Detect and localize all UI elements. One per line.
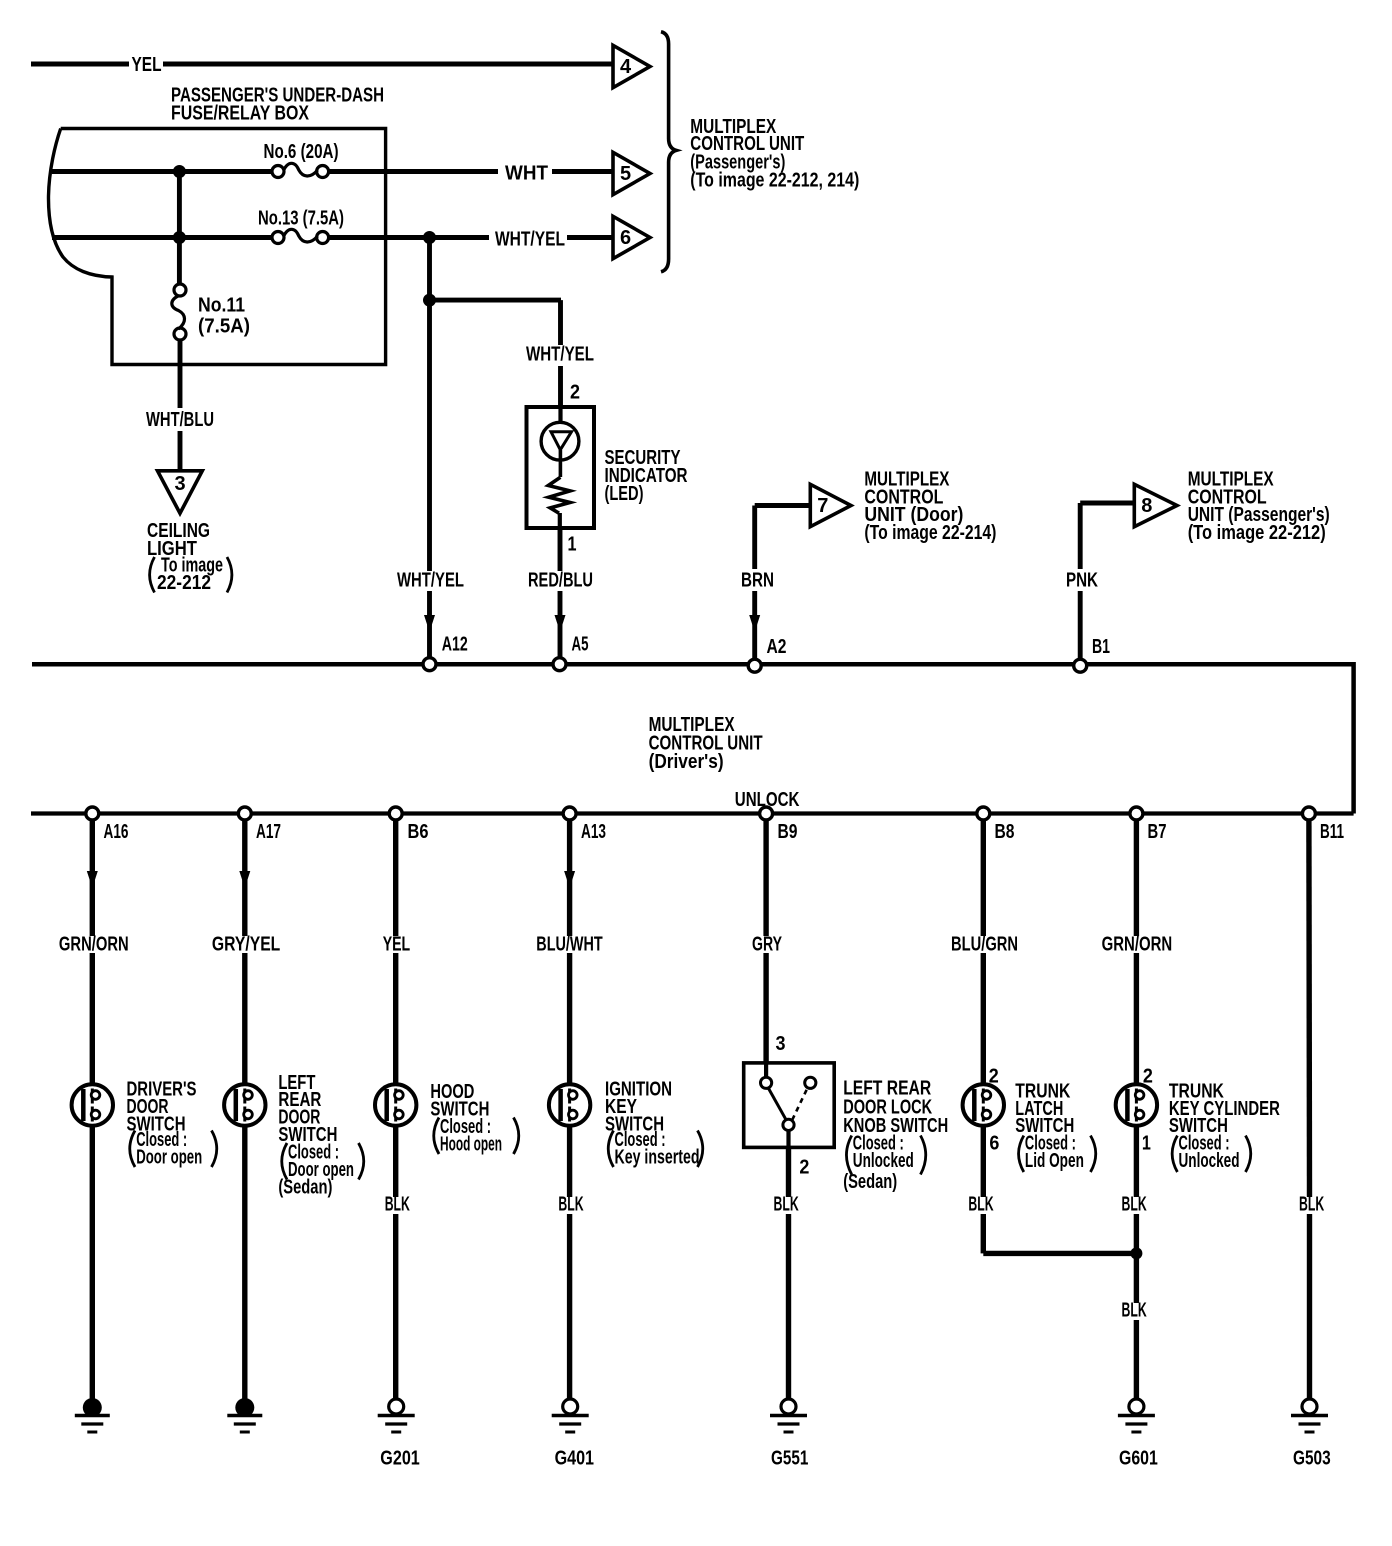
connector triangle 3 to ceiling light bbox=[158, 471, 203, 514]
svg-text:2: 2 bbox=[570, 382, 580, 404]
wire label YEL bbox=[132, 54, 162, 76]
terminal label A2 bbox=[767, 636, 787, 658]
svg-text:GRY: GRY bbox=[752, 934, 782, 956]
multiplex control unit driver's outline bbox=[31, 664, 1354, 813]
svg-text:A16: A16 bbox=[104, 821, 129, 843]
ground label G551 bbox=[771, 1448, 808, 1470]
svg-text:GRY/YEL: GRY/YEL bbox=[212, 934, 280, 956]
wire GRN/ORN from A16 bbox=[90, 820, 95, 1085]
svg-text:No.6 (20A): No.6 (20A) bbox=[264, 141, 339, 163]
ground G551 bbox=[770, 1399, 807, 1432]
svg-text:BLK: BLK bbox=[558, 1194, 584, 1216]
svg-text:B1: B1 bbox=[1092, 636, 1110, 658]
svg-text:(7.5A): (7.5A) bbox=[198, 316, 250, 338]
svg-text:3: 3 bbox=[776, 1033, 786, 1055]
label LEFT REAR DOOR LOCK KNOB SWITCH bbox=[843, 1078, 948, 1193]
wire WHT/BLU to ceiling light bbox=[178, 340, 183, 470]
pin 2 trunk key cylinder switch bbox=[1143, 1066, 1153, 1088]
junction node B8/B7 bbox=[1130, 1247, 1142, 1259]
terminal A17 bbox=[238, 807, 251, 820]
terminal label A16 bbox=[104, 821, 129, 843]
pin 1 trunk key cylinder switch bbox=[1142, 1133, 1151, 1155]
wire RED/BLU to A5 bbox=[558, 528, 563, 658]
wire label WHT/YEL (A12) bbox=[397, 570, 464, 592]
svg-text:G401: G401 bbox=[555, 1448, 594, 1470]
wire label WHT/YEL bbox=[495, 229, 565, 251]
wire fuse row No.13 bbox=[52, 235, 613, 240]
svg-text:6: 6 bbox=[620, 227, 631, 249]
svg-text:WHT/YEL: WHT/YEL bbox=[495, 229, 565, 251]
wire label PNK bbox=[1066, 570, 1098, 592]
wire label BLK (B7 lower) bbox=[1122, 1300, 1148, 1322]
arrowhead on A16 wire bbox=[87, 871, 98, 888]
pin 2 security indicator bbox=[570, 382, 580, 404]
driver's door switch bbox=[72, 1084, 113, 1125]
svg-text:5: 5 bbox=[620, 163, 631, 185]
junction node security branch bbox=[423, 294, 436, 307]
terminal label B8 bbox=[995, 821, 1015, 843]
svg-text:8: 8 bbox=[1141, 495, 1152, 517]
svg-text:B11: B11 bbox=[1320, 821, 1344, 843]
svg-text:1: 1 bbox=[1142, 1133, 1151, 1155]
wire GRY/YEL from A17 bbox=[242, 820, 247, 1085]
svg-text:4: 4 bbox=[620, 56, 632, 78]
wire YEL to connector arrow 4 bbox=[31, 62, 613, 67]
svg-text:BLK: BLK bbox=[1122, 1300, 1148, 1322]
terminal A16 bbox=[86, 807, 99, 820]
svg-text:A17: A17 bbox=[256, 821, 281, 843]
ground label G401 bbox=[555, 1448, 594, 1470]
svg-text:WHT/YEL: WHT/YEL bbox=[526, 344, 594, 366]
wire label BLK (B11) bbox=[1299, 1194, 1325, 1216]
wire A13 switch to ground bbox=[567, 1126, 572, 1400]
svg-text:Hood open: Hood open bbox=[440, 1134, 502, 1156]
wire label BLK (A13) bbox=[558, 1194, 584, 1216]
label HOOD SWITCH bbox=[430, 1081, 518, 1156]
label TRUNK LATCH SWITCH bbox=[1015, 1080, 1095, 1172]
wire B8 switch to junction bbox=[983, 1126, 1136, 1254]
brace multiplex control unit passenger's bbox=[661, 32, 676, 272]
wire fuse row No.6 bbox=[52, 169, 613, 174]
fuse label No.11 (7.5A) bbox=[198, 295, 250, 338]
svg-text:WHT: WHT bbox=[505, 163, 548, 185]
svg-text:A13: A13 bbox=[581, 821, 606, 843]
label DRIVER'S DOOR SWITCH bbox=[127, 1078, 217, 1168]
ground label G201 bbox=[380, 1448, 420, 1470]
wire B6 switch to ground bbox=[393, 1126, 398, 1400]
label MULTIPLEX CONTROL UNIT (Passenger's) right bbox=[1188, 469, 1330, 544]
svg-text:6: 6 bbox=[989, 1133, 999, 1155]
wire BLU/GRN from B8 bbox=[981, 820, 986, 1085]
svg-text:A2: A2 bbox=[767, 636, 787, 658]
terminal label B1 bbox=[1092, 636, 1110, 658]
wire YEL from B6 bbox=[393, 820, 398, 1085]
junction node No.13 row at A12 branch bbox=[423, 231, 436, 244]
LED symbol bbox=[541, 407, 579, 477]
svg-text:B6: B6 bbox=[408, 821, 429, 843]
svg-text:G551: G551 bbox=[771, 1448, 808, 1470]
svg-text:BLK: BLK bbox=[968, 1194, 994, 1216]
svg-text:WHT/BLU: WHT/BLU bbox=[146, 409, 214, 431]
junction node No.13 row left bbox=[173, 231, 186, 244]
svg-text:BLK: BLK bbox=[385, 1194, 411, 1216]
ground A16 bbox=[75, 1398, 110, 1432]
svg-text:GRN/ORN: GRN/ORN bbox=[1102, 934, 1173, 956]
svg-text:PNK: PNK bbox=[1066, 570, 1098, 592]
terminal B8 bbox=[977, 807, 990, 820]
svg-text:B8: B8 bbox=[995, 821, 1015, 843]
label CEILING LIGHT (To image 22-212) bbox=[147, 520, 232, 594]
wire GRN/ORN from B7 bbox=[1134, 820, 1139, 1085]
label TRUNK KEY CYLINDER SWITCH bbox=[1169, 1080, 1280, 1172]
arrowhead on A5 wire bbox=[555, 615, 566, 632]
fuse label No.6 (20A) bbox=[264, 141, 339, 163]
svg-text:BRN: BRN bbox=[741, 570, 774, 592]
wire label GRY bbox=[752, 934, 782, 956]
svg-text:(To image 22-214): (To image 22-214) bbox=[864, 522, 996, 544]
wire label BLK (B7) bbox=[1122, 1194, 1148, 1216]
svg-text:(Driver's): (Driver's) bbox=[649, 751, 724, 773]
svg-text:7: 7 bbox=[817, 495, 828, 517]
trunk key cylinder switch bbox=[1116, 1084, 1157, 1125]
svg-text:G503: G503 bbox=[1293, 1448, 1331, 1470]
arrowhead on A12 wire bbox=[424, 615, 435, 632]
ground G503 bbox=[1291, 1399, 1328, 1432]
terminal B1 bbox=[1074, 659, 1087, 672]
terminal label B9 bbox=[778, 821, 798, 843]
ground G601 bbox=[1118, 1399, 1155, 1432]
connector arrow 4 (MULTIPLEX CONTROL UNIT passenger's) bbox=[613, 45, 650, 87]
wire label RED/BLU bbox=[528, 570, 593, 592]
svg-text:No.11: No.11 bbox=[198, 295, 245, 317]
wire label BRN bbox=[741, 570, 774, 592]
svg-text:YEL: YEL bbox=[132, 54, 162, 76]
terminal B11 bbox=[1302, 807, 1315, 820]
wire label BLK (B9) bbox=[774, 1194, 800, 1216]
svg-text:YEL: YEL bbox=[383, 934, 411, 956]
svg-text:(Sedan): (Sedan) bbox=[278, 1176, 332, 1198]
terminal label A17 bbox=[256, 821, 281, 843]
arrowhead on A13 wire bbox=[564, 871, 575, 888]
label MULTIPLEX CONTROL UNIT (Passenger's) bbox=[690, 116, 859, 192]
wire label WHT/BLU bbox=[146, 409, 214, 431]
wire label GRN/ORN bbox=[59, 934, 129, 956]
pin 2 trunk latch switch bbox=[989, 1066, 999, 1088]
pin 1 security indicator bbox=[568, 534, 577, 556]
terminal A5 bbox=[553, 658, 566, 671]
svg-text:Key inserted: Key inserted bbox=[615, 1147, 700, 1169]
pin 2 door lock knob switch bbox=[799, 1157, 809, 1179]
wire label GRY/YEL bbox=[212, 934, 280, 956]
svg-text:RED/BLU: RED/BLU bbox=[528, 570, 593, 592]
svg-text:(Sedan): (Sedan) bbox=[843, 1171, 897, 1193]
terminal A12 bbox=[423, 658, 436, 671]
terminal A2 bbox=[748, 659, 761, 672]
wire label WHT bbox=[505, 163, 548, 185]
wire from B11 bbox=[1306, 820, 1312, 1400]
hood switch bbox=[375, 1084, 416, 1125]
svg-text:G601: G601 bbox=[1119, 1448, 1158, 1470]
wire B9 switch to ground bbox=[786, 1147, 791, 1399]
label UNLOCK bbox=[735, 789, 800, 811]
label SECURITY INDICATOR (LED) bbox=[605, 447, 688, 505]
terminal label B6 bbox=[408, 821, 429, 843]
connector arrow 8 bbox=[1134, 484, 1177, 526]
svg-text:BLK: BLK bbox=[1122, 1194, 1148, 1216]
wire label GRN/ORN (B7) bbox=[1102, 934, 1173, 956]
svg-text:(To image 22-212, 214): (To image 22-212, 214) bbox=[690, 170, 859, 192]
fuse No.13 (7.5A) bbox=[272, 229, 329, 243]
label MULTIPLEX CONTROL UNIT (Door) bbox=[864, 469, 996, 544]
wire label WHT/YEL (security) bbox=[526, 344, 594, 366]
wire PNK to B1 and connector 8 bbox=[1080, 503, 1135, 659]
terminal B7 bbox=[1130, 807, 1143, 820]
wire label YEL (B6) bbox=[383, 934, 411, 956]
svg-text:Door open: Door open bbox=[136, 1147, 202, 1169]
svg-text:(To image 22-212): (To image 22-212) bbox=[1188, 522, 1326, 544]
arrowhead on A17 wire bbox=[239, 871, 250, 888]
label PASSENGER'S UNDER-DASH FUSE/RELAY BOX bbox=[171, 84, 384, 124]
security indicator (LED) box bbox=[527, 407, 595, 528]
wire A17 switch to ground bbox=[242, 1126, 247, 1401]
wire WHT/YEL branch to A12 bbox=[427, 238, 432, 659]
ground G401 bbox=[552, 1399, 589, 1432]
ground label G503 bbox=[1293, 1448, 1331, 1470]
svg-text:B7: B7 bbox=[1148, 821, 1167, 843]
svg-text:FUSE/RELAY BOX: FUSE/RELAY BOX bbox=[171, 102, 310, 124]
label IGNITION KEY SWITCH bbox=[605, 1078, 703, 1168]
wire BRN to A2 and connector 7 bbox=[755, 506, 811, 659]
wire branch to security indicator bbox=[430, 300, 562, 408]
left rear door lock knob switch box bbox=[744, 1063, 835, 1148]
svg-text:(LED): (LED) bbox=[605, 483, 644, 505]
svg-text:3: 3 bbox=[174, 473, 185, 495]
left rear door switch bbox=[224, 1084, 265, 1125]
svg-text:BLU/WHT: BLU/WHT bbox=[536, 934, 602, 956]
svg-text:A5: A5 bbox=[572, 634, 589, 656]
wire label BLU/WHT bbox=[536, 934, 602, 956]
connector arrow 7 bbox=[810, 484, 851, 526]
pin 3 door lock knob switch bbox=[776, 1033, 786, 1055]
wire label BLK (B6) bbox=[385, 1194, 411, 1216]
svg-text:G201: G201 bbox=[380, 1448, 420, 1470]
svg-text:BLK: BLK bbox=[1299, 1194, 1325, 1216]
ignition key switch bbox=[549, 1084, 590, 1125]
wire GRY from B9 bbox=[763, 820, 768, 1064]
fuse No.11 (7.5A) bbox=[172, 284, 186, 340]
svg-text:Unlocked: Unlocked bbox=[1179, 1150, 1240, 1172]
ground G201 bbox=[378, 1399, 415, 1432]
pin 6 trunk latch switch bbox=[989, 1133, 999, 1155]
wire A16 switch to ground bbox=[90, 1126, 95, 1401]
svg-text:GRN/ORN: GRN/ORN bbox=[59, 934, 129, 956]
svg-text:BLU/GRN: BLU/GRN bbox=[951, 934, 1018, 956]
ground label G601 bbox=[1119, 1448, 1158, 1470]
label LEFT REAR DOOR SWITCH bbox=[278, 1072, 363, 1199]
svg-text:Unlocked: Unlocked bbox=[853, 1150, 914, 1172]
svg-text:WHT/YEL: WHT/YEL bbox=[397, 570, 464, 592]
svg-text:1: 1 bbox=[568, 534, 577, 556]
terminal A13 bbox=[563, 807, 576, 820]
resistor in security indicator bbox=[548, 477, 570, 528]
terminal B6 bbox=[389, 807, 402, 820]
arrowhead on BRN wire bbox=[749, 615, 760, 632]
svg-text:BLK: BLK bbox=[774, 1194, 800, 1216]
terminal label A12 bbox=[442, 634, 468, 656]
trunk latch switch bbox=[963, 1084, 1004, 1125]
wire label BLK (B8) bbox=[968, 1194, 994, 1216]
fuse label No.13 (7.5A) bbox=[258, 208, 344, 230]
wire BLU/WHT from A13 bbox=[567, 820, 572, 1085]
terminal label B11 bbox=[1320, 821, 1344, 843]
svg-text:Lid Open: Lid Open bbox=[1025, 1150, 1084, 1172]
junction node on No.6 row bbox=[173, 165, 186, 178]
terminal B9 bbox=[760, 807, 773, 820]
connector arrow 6 bbox=[613, 216, 650, 258]
terminal label A5 bbox=[572, 634, 589, 656]
wire B7 switch through junction to ground bbox=[1134, 1126, 1139, 1400]
svg-text:B9: B9 bbox=[778, 821, 798, 843]
fuse/relay box outline bbox=[48, 129, 385, 365]
svg-text:No.13 (7.5A): No.13 (7.5A) bbox=[258, 208, 344, 230]
fuse No.6 (20A) bbox=[272, 163, 329, 177]
wire label BLU/GRN bbox=[951, 934, 1018, 956]
terminal label A13 bbox=[581, 821, 606, 843]
svg-text:2: 2 bbox=[799, 1157, 809, 1179]
terminal label B7 bbox=[1148, 821, 1167, 843]
connector arrow 5 bbox=[613, 152, 650, 194]
svg-text:22-212: 22-212 bbox=[157, 572, 211, 594]
ground A17 bbox=[227, 1398, 262, 1432]
wire vertical branch in fuse box bbox=[177, 172, 182, 285]
label MULTIPLEX CONTROL UNIT (Driver's) bbox=[649, 714, 763, 773]
svg-text:A12: A12 bbox=[442, 634, 468, 656]
